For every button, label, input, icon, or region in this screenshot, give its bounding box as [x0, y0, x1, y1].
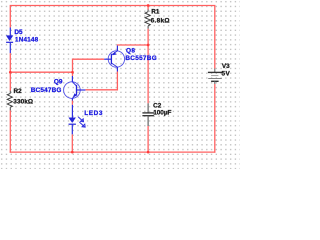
svg-text:D5: D5 [14, 29, 23, 36]
svg-text:BC547BG: BC547BG [31, 87, 62, 94]
node junction R1 top [147, 4, 150, 7]
svg-text:100µF: 100µF [153, 110, 171, 117]
svg-text:R2: R2 [14, 88, 23, 95]
wire top rail [10, 6, 215, 69]
transistor Q9 [31, 76, 86, 101]
battery V3 [208, 63, 231, 84]
wire LED3 cathode to rail [71, 134, 73, 152]
wire left rail D5 to R2 [9, 53, 11, 91]
wire right rail below battery [214, 84, 216, 153]
svg-text:330kΩ: 330kΩ [13, 98, 33, 105]
resistor R2 [7, 88, 33, 111]
svg-text:C2: C2 [153, 102, 162, 109]
LED LED3 [68, 105, 103, 135]
node junction C2 bottom [147, 151, 150, 154]
svg-text:5V: 5V [222, 71, 231, 78]
svg-text:Q9: Q9 [54, 78, 63, 85]
node junction left rail base node [9, 71, 12, 74]
wire R1 bottom to C2 top [147, 29, 149, 104]
svg-text:1N4148: 1N4148 [15, 36, 39, 43]
node junction LED3 bottom [71, 151, 74, 154]
wire R1 top stub [147, 6, 149, 10]
wire Q9 emitter to LED3 anode [71, 101, 73, 105]
svg-text:Q8: Q8 [126, 48, 135, 55]
wire Q8 collector to Q9 base [85, 72, 117, 90]
svg-text:BC557BG: BC557BG [125, 55, 157, 62]
wire Q9 collector riser to Q8 base [73, 59, 105, 76]
svg-text:V3: V3 [222, 63, 230, 70]
capacitor C2 [142, 102, 171, 126]
diode D5 [6, 28, 39, 54]
wire bottom rail [10, 151, 216, 153]
node junction R1 bottom [147, 44, 150, 47]
svg-text:6.8kΩ: 6.8kΩ [151, 18, 170, 25]
wire C2 bottom to rail [147, 126, 149, 152]
wire left rail R2 to bottom [9, 110, 11, 152]
transistor Q8 [104, 46, 157, 72]
wire base node horizontal [10, 71, 72, 73]
wire Q8 emitter to R1 bottom junction [117, 44, 148, 47]
resistor R1 [145, 9, 170, 29]
svg-text:R1: R1 [151, 9, 160, 16]
node junction collector riser tee [71, 71, 74, 74]
svg-text:LED3: LED3 [84, 110, 103, 117]
